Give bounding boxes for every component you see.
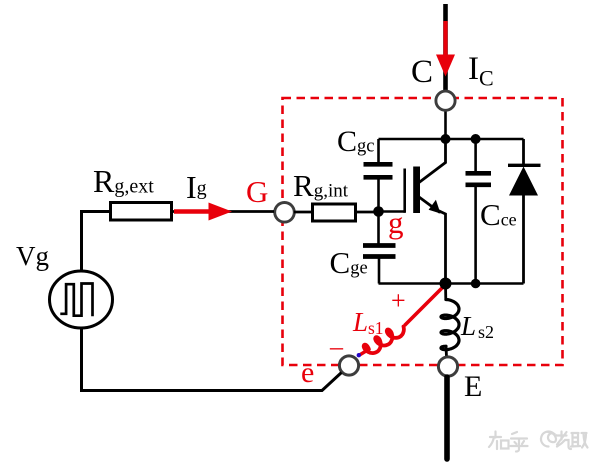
source Vg waveform: [60, 284, 92, 317]
junction dot emitter rail left: [440, 278, 452, 290]
IGBT module boundary dashed box: [283, 98, 563, 365]
wire: Rgint to gate dot: [356, 211, 379, 214]
svg-text:C: C: [411, 54, 433, 90]
wire: bottom inner rail: [379, 282, 524, 285]
IGBT body bar (thick): [413, 167, 420, 214]
wire: C node to top rail: [444, 110, 447, 140]
junction dot emitter rail right: [471, 279, 481, 289]
junction dot top rail right: [471, 134, 481, 144]
node C circle: [436, 91, 455, 110]
diode (freewheeling): [508, 139, 541, 284]
current arrow IC: [436, 21, 455, 77]
svg-text:L: L: [352, 307, 368, 337]
wire: emitter lead below E: [444, 377, 450, 459]
svg-text:s1: s1: [368, 318, 384, 338]
wire: Vg top lead: [82, 212, 112, 273]
wire Ls1 tail: [360, 349, 369, 355]
current arrow Ig (red): [174, 203, 232, 221]
capacitor Cgc: [364, 139, 393, 212]
wire: node G to Rgint: [294, 211, 313, 214]
svg-text:Vg: Vg: [16, 241, 49, 271]
svg-text:IC: IC: [468, 51, 494, 91]
source Vg circle: [50, 271, 113, 328]
svg-text:Cge: Cge: [330, 245, 368, 280]
wire: e node to source bottom: [82, 373, 342, 391]
blue dot node: [357, 353, 361, 357]
svg-text:E: E: [464, 370, 482, 403]
wire Ls2 leads: [444, 284, 447, 301]
junction dot gate: [373, 206, 384, 217]
svg-text:Cce: Cce: [480, 197, 517, 232]
resistor Rgext: [111, 203, 172, 221]
svg-text:+: +: [391, 286, 406, 315]
svg-text:g: g: [388, 205, 404, 240]
node G circle: [275, 203, 295, 223]
svg-text:Rg,ext: Rg,ext: [93, 163, 154, 199]
svg-text:Ig: Ig: [186, 169, 207, 205]
node E circle: [438, 357, 457, 376]
wire: Rgext to node G: [172, 210, 275, 213]
IGBT emitter arrowhead: [429, 200, 441, 214]
junction dot top rail left: [441, 134, 451, 144]
node e circle: [339, 356, 358, 375]
inductor Ls1 coil: [364, 327, 404, 354]
resistor Rgint: [313, 204, 356, 221]
wire: collector top lead: [443, 4, 448, 94]
inductor Ls1 (red, stray) line: [405, 286, 445, 326]
svg-text:Cgc: Cgc: [337, 125, 374, 158]
IGBT emitter path with arrow: [419, 197, 440, 213]
wire: top inner rail: [379, 138, 524, 141]
capacitor Cce: [466, 139, 492, 284]
svg-text:G: G: [246, 174, 268, 209]
capacitor Cge: [363, 212, 396, 284]
svg-text:–: –: [329, 332, 344, 361]
svg-text:e: e: [301, 356, 314, 389]
IGBT gate bar (thin): [403, 169, 406, 213]
IGBT collector path: [419, 139, 446, 183]
svg-text:Rg,int: Rg,int: [293, 168, 349, 203]
wire: Vg bottom lead: [80, 327, 83, 392]
inductor Ls2: [441, 300, 459, 350]
wire: gate to IGBT gate bar: [379, 210, 406, 213]
watermark zhihu: [489, 432, 588, 452]
svg-text:s2: s2: [478, 322, 494, 342]
svg-text:L: L: [460, 311, 476, 341]
